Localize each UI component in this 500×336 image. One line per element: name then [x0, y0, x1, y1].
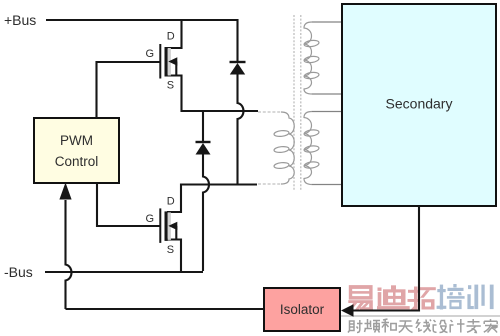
svg-text:Isolator: Isolator: [280, 302, 325, 317]
wire group: [45, 20, 419, 311]
svg-text:+Bus: +Bus: [4, 12, 36, 28]
svg-text:S: S: [167, 244, 174, 256]
watermark char 专: [467, 319, 481, 333]
svg-text:PWM: PWM: [60, 133, 93, 148]
transistor Q2 (bottom MOSFET): [146, 196, 178, 257]
培: [437, 284, 465, 310]
Isolator box: [264, 288, 340, 331]
watermark char 家: [484, 319, 498, 333]
svg-text:G: G: [146, 213, 155, 225]
训: [467, 285, 493, 310]
transformer core: [294, 15, 301, 190]
svg-text:-Bus: -Bus: [4, 264, 33, 280]
svg-text:S: S: [167, 80, 174, 92]
watermark char 天: [399, 321, 413, 333]
svg-text:Control: Control: [55, 154, 99, 169]
wire node B (lower rail to primary bottom): [167, 185, 257, 213]
wire bottom gate from PWM: [97, 184, 160, 227]
diode D1 anode wire with hop: [238, 74, 244, 185]
svg-text:D: D: [167, 31, 175, 43]
PWM Control box: [34, 118, 119, 183]
transformer secondary winding bottom (right): [304, 112, 342, 185]
wire feedback bottom run: [66, 308, 264, 310]
watermark small text 射频和天线设计专家: [348, 319, 498, 333]
transistor Q1 (top MOSFET): [146, 31, 178, 92]
watermark char 和: [382, 319, 397, 333]
watermark big text 易迪拓培训: [348, 284, 494, 310]
wire feedback up with hop: [66, 200, 72, 309]
watermark char 线: [416, 319, 431, 333]
transformer secondary winding top (right): [304, 22, 342, 94]
wire secondary to isolator: [352, 206, 419, 311]
watermark underline: [341, 315, 500, 317]
watermark char 计: [450, 319, 464, 333]
arrow into Isolator: [341, 304, 354, 316]
wire -Bus rail: [45, 271, 203, 273]
transformer primary winding (left): [258, 112, 294, 184]
arrow into PWM: [59, 183, 71, 200]
svg-text:D: D: [167, 196, 175, 208]
拓: [408, 287, 436, 310]
watermark char 设: [433, 320, 447, 333]
迪: [377, 285, 410, 309]
Secondary box: [342, 4, 496, 206]
svg-text:Secondary: Secondary: [386, 96, 453, 112]
wire +Bus rail: [46, 20, 238, 61]
watermark char 频: [365, 319, 381, 333]
diode D2 wire with hop: [203, 111, 209, 271]
易: [348, 285, 373, 310]
wire top gate from PWM: [97, 62, 161, 118]
watermark char 射: [348, 320, 363, 333]
wire bottom mosfet source: [167, 240, 181, 272]
wire node A (top mosfet source to primary top): [167, 76, 258, 112]
svg-text:G: G: [146, 48, 155, 60]
wire top mosfet drain: [167, 21, 182, 48]
diode D1: [230, 62, 246, 75]
diode D2: [196, 142, 211, 155]
